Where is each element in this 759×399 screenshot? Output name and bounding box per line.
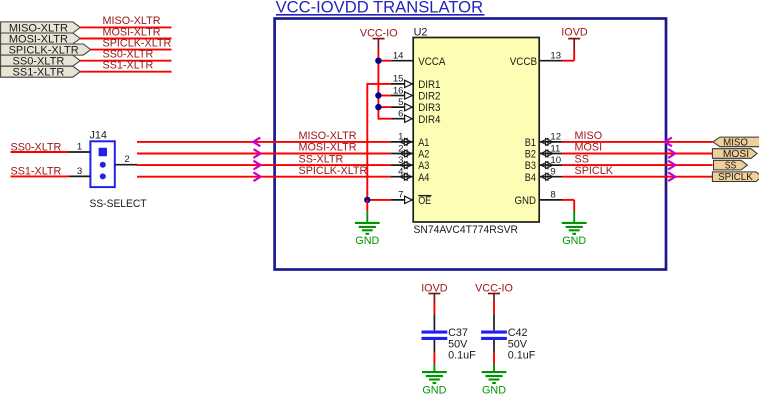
svg-text:5: 5 bbox=[398, 97, 403, 108]
svg-text:13: 13 bbox=[550, 51, 561, 62]
svg-text:SS1-XLTR: SS1-XLTR bbox=[11, 166, 62, 178]
svg-text:50V: 50V bbox=[448, 338, 468, 350]
svg-text:VCC-IOVDD TRANSLATOR: VCC-IOVDD TRANSLATOR bbox=[276, 0, 483, 16]
svg-text:2: 2 bbox=[124, 154, 129, 165]
svg-text:15: 15 bbox=[393, 74, 404, 85]
svg-text:U2: U2 bbox=[414, 26, 428, 38]
svg-text:MOSI-XLTR: MOSI-XLTR bbox=[299, 142, 357, 154]
svg-text:MISO: MISO bbox=[723, 137, 748, 148]
svg-text:14: 14 bbox=[393, 51, 404, 62]
svg-text:7: 7 bbox=[398, 190, 403, 201]
svg-text:A1: A1 bbox=[418, 137, 429, 149]
svg-text:0.1uF: 0.1uF bbox=[508, 350, 536, 362]
svg-text:50V: 50V bbox=[508, 338, 528, 350]
svg-text:IOVD: IOVD bbox=[561, 27, 588, 39]
svg-text:B2: B2 bbox=[525, 149, 536, 161]
svg-text:MOSI: MOSI bbox=[575, 142, 603, 154]
svg-text:VCCA: VCCA bbox=[418, 56, 446, 68]
svg-text:0.1uF: 0.1uF bbox=[448, 350, 476, 362]
svg-text:SS1-XLTR: SS1-XLTR bbox=[103, 60, 154, 72]
svg-text:DIR4: DIR4 bbox=[418, 114, 440, 126]
svg-text:DIR2: DIR2 bbox=[418, 91, 440, 103]
svg-text:SPICLK: SPICLK bbox=[575, 165, 614, 177]
svg-text:A3: A3 bbox=[418, 160, 429, 172]
svg-text:SPICLK: SPICLK bbox=[718, 172, 753, 183]
svg-text:MISO: MISO bbox=[575, 130, 603, 142]
svg-text:SS-SELECT: SS-SELECT bbox=[90, 198, 147, 210]
svg-text:DIR1: DIR1 bbox=[418, 79, 440, 91]
svg-text:1: 1 bbox=[77, 142, 82, 153]
svg-text:SS-XLTR: SS-XLTR bbox=[299, 153, 344, 165]
svg-text:C42: C42 bbox=[508, 327, 528, 339]
svg-text:SS1-XLTR: SS1-XLTR bbox=[13, 67, 65, 79]
svg-text:3: 3 bbox=[77, 166, 82, 177]
svg-text:A4: A4 bbox=[418, 172, 429, 184]
svg-text:GND: GND bbox=[515, 195, 537, 207]
svg-text:SN74AVC4T774RSVR: SN74AVC4T774RSVR bbox=[414, 224, 519, 236]
svg-text:GND: GND bbox=[562, 235, 586, 247]
svg-text:SS: SS bbox=[575, 153, 589, 165]
svg-text:OE: OE bbox=[418, 195, 431, 207]
svg-text:MOSI: MOSI bbox=[723, 149, 749, 160]
svg-text:SS0-XLTR: SS0-XLTR bbox=[11, 141, 62, 153]
svg-text:J14: J14 bbox=[90, 129, 107, 141]
svg-text:GND: GND bbox=[422, 384, 446, 394]
svg-text:B1: B1 bbox=[525, 137, 536, 149]
svg-text:B4: B4 bbox=[525, 172, 536, 184]
svg-text:SS: SS bbox=[725, 161, 737, 172]
svg-text:B3: B3 bbox=[525, 160, 536, 172]
svg-text:16: 16 bbox=[393, 85, 404, 96]
svg-text:GND: GND bbox=[482, 384, 506, 394]
svg-text:C37: C37 bbox=[448, 327, 468, 339]
svg-text:MISO-XLTR: MISO-XLTR bbox=[299, 130, 357, 142]
svg-text:8: 8 bbox=[550, 190, 555, 201]
svg-text:6: 6 bbox=[398, 109, 403, 120]
svg-text:A2: A2 bbox=[418, 149, 429, 161]
svg-text:DIR3: DIR3 bbox=[418, 102, 440, 114]
svg-text:SPICLK-XLTR: SPICLK-XLTR bbox=[299, 165, 368, 177]
svg-text:GND: GND bbox=[355, 235, 379, 247]
svg-text:VCCB: VCCB bbox=[510, 56, 537, 68]
